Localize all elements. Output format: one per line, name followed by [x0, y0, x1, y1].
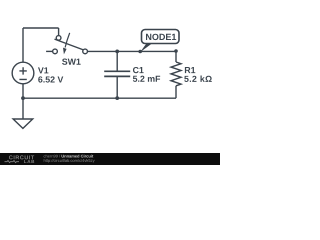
- wire C1 bottom lead: [116, 76, 118, 98]
- wire R1 top lead: [175, 51, 177, 62]
- junction dot R1 top corner: [174, 49, 178, 53]
- wire bottom horizontal: [23, 97, 176, 99]
- watermark logo CIRCUIT: [9, 155, 34, 159]
- voltage source V1: [12, 62, 34, 84]
- SW1 left stub: [46, 50, 53, 52]
- wire middle horizontal SW1 to R1: [87, 50, 176, 52]
- SW1 top terminal circle: [56, 36, 61, 41]
- junction dot C1 bottom: [115, 96, 119, 100]
- node NODE1 flag box: [142, 30, 180, 44]
- watermark logo LAB: [24, 160, 34, 163]
- label C1: [133, 67, 144, 73]
- wire SW1 top vertical lead: [58, 28, 60, 36]
- watermark logo wave: [5, 160, 20, 162]
- wire top horizontal V1 to SW1: [23, 27, 59, 29]
- SW1 right terminal circle: [83, 49, 88, 54]
- watermark bar: [0, 153, 220, 165]
- wire C1 top lead: [116, 51, 118, 71]
- SW1 left terminal circle: [53, 49, 58, 54]
- label SW1: [62, 59, 81, 65]
- wire R1 bottom lead: [175, 86, 177, 98]
- SW1 actuator arrow: [65, 33, 70, 48]
- label V1: [38, 67, 48, 73]
- SW1 blade: [55, 39, 84, 50]
- watermark text line 1: [44, 155, 61, 158]
- capacitor C1 plates: [104, 71, 130, 76]
- junction dot ground node: [21, 96, 25, 100]
- wire left vertical V1 top lead: [22, 28, 24, 62]
- node NODE1 flag beak: [140, 44, 151, 52]
- value 5.2 kOhm: [184, 76, 212, 82]
- SW1 arrowhead: [63, 48, 67, 55]
- label R1: [185, 67, 195, 73]
- node NODE1 label: [146, 34, 176, 40]
- value 5.2 mF: [133, 76, 160, 82]
- switch SW1: [46, 33, 87, 54]
- value 6.52 V: [38, 76, 63, 82]
- junction dot C1 top: [115, 50, 119, 54]
- node NODE1 anchor dot: [138, 50, 142, 54]
- wire V1 bottom lead: [22, 84, 24, 98]
- resistor R1 zigzag: [171, 62, 181, 86]
- watermark text line 2: [44, 159, 95, 163]
- wire ground stem: [22, 98, 24, 119]
- ground: [13, 119, 33, 128]
